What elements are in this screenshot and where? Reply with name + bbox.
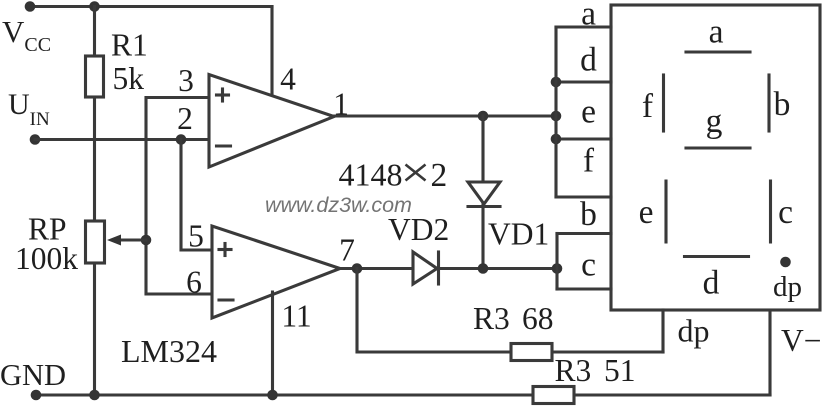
node pin11/ground junction (267, 390, 278, 401)
resistor R1 (86, 56, 104, 97)
segment a bar (686, 50, 750, 53)
display box LED (611, 5, 820, 310)
wire Vcc top rail (30, 5, 272, 8)
svg-text:51: 51 (604, 353, 636, 388)
wire a-f bus (554, 27, 557, 197)
segment e bar (664, 181, 667, 242)
svg-text:d: d (703, 265, 720, 302)
wire segment b shelf (557, 232, 611, 235)
diode VD2 (413, 252, 437, 284)
segment c bar (769, 181, 772, 242)
svg-text:LM324: LM324 (121, 333, 217, 369)
node d shelf junction (551, 77, 562, 88)
segment d bar (685, 255, 749, 258)
svg-text:dp: dp (773, 271, 802, 303)
potentiometer RP (86, 221, 105, 263)
wire VD1 vertical (481, 116, 484, 269)
wire RP bottom lead to ground rail (93, 263, 96, 395)
resistor R3 68 (511, 344, 552, 361)
svg-text:a: a (581, 0, 596, 33)
resistor R3 51 (533, 387, 574, 404)
wire pin 3 net (146, 98, 212, 295)
wire segment d shelf (556, 80, 611, 83)
svg-text:b: b (774, 86, 791, 123)
segment b bar (767, 75, 770, 131)
op-amp U1 (pins 3,2,1,4) (209, 75, 334, 168)
svg-text:b: b (580, 196, 597, 233)
svg-text:c: c (581, 247, 596, 284)
svg-text:f: f (642, 88, 654, 125)
node VD1 anode junction (478, 111, 489, 122)
svg-text:4148: 4148 (339, 157, 403, 193)
wire segment a shelf (556, 25, 611, 28)
svg-text:R3: R3 (473, 301, 510, 336)
wire op-amp1 output (334, 114, 556, 117)
node Vcc terminal (25, 1, 36, 12)
wire pin 4 drop (270, 7, 273, 97)
node e shelf junction (551, 134, 562, 145)
wire op-amp2 output row (340, 267, 413, 270)
svg-text:f: f (583, 143, 595, 180)
wire segment c shelf (557, 287, 611, 290)
wire b-c bus (555, 234, 558, 290)
svg-text:100k: 100k (15, 241, 78, 276)
wire segment f shelf (556, 195, 611, 198)
wire RP wiper arrow (119, 238, 146, 241)
node VD1 cathode junction (478, 263, 489, 274)
node output/display bus junction (551, 111, 562, 122)
svg-text:V−: V− (781, 323, 822, 358)
svg-text:11: 11 (281, 299, 311, 334)
node b/c bus junction (552, 263, 563, 274)
svg-text:www.dz3w.com: www.dz3w.com (265, 193, 412, 217)
node Uin/pin5 junction (176, 134, 187, 145)
wire Uin to pin 2 (35, 138, 209, 141)
wire pin 5 net vertical (181, 140, 212, 251)
wire R1 bottom lead to RP (93, 97, 96, 221)
svg-text:2: 2 (431, 157, 448, 194)
svg-text:e: e (639, 194, 654, 231)
svg-text:d: d (580, 42, 597, 79)
segment dp dot (780, 257, 791, 268)
svg-text:R1: R1 (111, 28, 148, 63)
wire VD2 cathode to display bus (439, 267, 558, 270)
svg-text:4: 4 (280, 62, 296, 97)
op-amp U2 (pins 5,6,7,11) (212, 226, 340, 318)
svg-text:5: 5 (188, 219, 204, 254)
svg-text:VD1: VD1 (488, 217, 549, 252)
segment f bar (662, 75, 665, 131)
svg-text:2: 2 (177, 101, 193, 136)
wire ground rail (36, 393, 770, 396)
svg-text:a: a (709, 14, 724, 51)
svg-text:g: g (706, 103, 723, 140)
svg-text:6: 6 (186, 265, 202, 300)
svg-text:c: c (778, 194, 793, 231)
wire R1 top lead (93, 7, 96, 57)
svg-text:3: 3 (178, 63, 194, 98)
segment g bar (686, 146, 750, 149)
svg-text:5k: 5k (113, 61, 145, 96)
wire V- pin (768, 310, 771, 395)
node RP wiper junction (141, 235, 152, 246)
svg-text:R3: R3 (555, 353, 592, 388)
svg-text:dp: dp (678, 313, 710, 349)
svg-text:68: 68 (522, 301, 554, 336)
node pin 7 junction (352, 263, 363, 274)
wire pin 11 (271, 292, 274, 395)
svg-text:VD2: VD2 (388, 212, 449, 247)
node Vcc/R1 junction (89, 1, 100, 12)
wire dp pin (661, 310, 664, 352)
svg-text:7: 7 (339, 233, 355, 268)
svg-text:1: 1 (333, 87, 349, 122)
node Uin terminal (30, 134, 41, 145)
svg-text:e: e (581, 94, 596, 131)
diode VD1 (468, 182, 500, 204)
node RP/ground junction (89, 390, 100, 401)
wire segment e shelf (556, 137, 611, 140)
wire pin 7 drop to R3 (357, 269, 663, 353)
svg-text:GND: GND (0, 358, 66, 392)
node GND terminal (31, 390, 42, 401)
